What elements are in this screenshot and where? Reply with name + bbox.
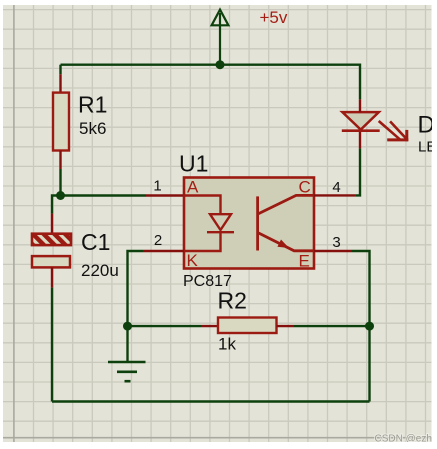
svg-text:+5v: +5v — [260, 8, 288, 27]
node junction R2 left — [123, 322, 132, 331]
wire C1 to bottom rail — [51, 288, 53, 402]
pin R1 bottom — [59, 151, 61, 170]
pin C1 bottom — [51, 267, 53, 287]
diode LED D1 — [342, 112, 380, 131]
pin label E — [299, 251, 310, 270]
pin 2 of U1 — [143, 250, 184, 252]
label D1 — [418, 111, 437, 138]
svg-text:C1: C1 — [81, 229, 110, 255]
internal LED of U1 — [184, 196, 234, 252]
pin 1 of U1 — [146, 194, 184, 196]
internal phototransistor of U1 — [258, 195, 314, 250]
wire R2 right — [294, 325, 370, 327]
svg-text:1: 1 — [153, 178, 161, 195]
wire R2 left — [128, 325, 202, 327]
node junction left — [56, 191, 65, 200]
svg-text:K: K — [187, 251, 199, 270]
svg-text:3: 3 — [332, 234, 340, 251]
label +5v — [260, 8, 288, 27]
power +5v — [212, 10, 229, 65]
svg-text:E: E — [299, 251, 310, 270]
svg-text:220u: 220u — [81, 261, 119, 280]
pin R1 top — [59, 74, 61, 93]
wire top rail — [61, 65, 361, 100]
wire R1 top — [59, 65, 61, 75]
label LED — [418, 138, 437, 155]
resistor R1 — [53, 92, 107, 151]
pin R2 right — [277, 325, 295, 327]
svg-text:4: 4 — [332, 179, 340, 196]
emitter arrowhead — [277, 240, 289, 249]
svg-text:5k6: 5k6 — [79, 119, 106, 138]
pin 4 of U1 — [314, 194, 355, 196]
pin C1 top — [51, 214, 53, 235]
pin label K — [187, 251, 199, 270]
optocoupler U1 — [179, 151, 314, 291]
node junction R2 right — [365, 322, 374, 331]
pin label A — [187, 178, 199, 197]
capacitor C1 — [32, 229, 119, 280]
wire to C1 — [52, 196, 61, 214]
svg-text:U1: U1 — [179, 151, 208, 177]
wire pin3 to junction — [352, 251, 370, 326]
pin number 2 — [154, 232, 162, 249]
watermark — [375, 434, 437, 445]
wire R1 bottom — [59, 169, 61, 196]
wire to ground — [126, 326, 128, 362]
wire pin1 — [61, 194, 147, 196]
pin number 4 — [332, 179, 340, 196]
wire right vertical to bottom — [368, 326, 370, 401]
wire pin4 to LED — [355, 148, 360, 195]
svg-text:A: A — [187, 178, 199, 197]
pin number 1 — [153, 178, 161, 195]
LED emission arrows — [379, 121, 409, 141]
pin LED bottom — [359, 131, 361, 149]
pin R2 left — [201, 325, 218, 327]
node junction at +5v — [216, 60, 225, 69]
wire bottom rail — [52, 400, 370, 402]
svg-text:R1: R1 — [78, 92, 107, 118]
pin LED top — [359, 99, 361, 112]
pin 3 of U1 — [314, 250, 352, 252]
svg-text:C: C — [299, 178, 311, 197]
wire pin2 down — [128, 251, 144, 326]
svg-text:1k: 1k — [218, 335, 236, 354]
resistor R2 — [218, 288, 277, 354]
svg-text:R2: R2 — [218, 288, 247, 314]
ground — [108, 362, 146, 381]
svg-text:2: 2 — [154, 232, 162, 249]
pin label C — [299, 178, 311, 197]
pin number 3 — [332, 234, 340, 251]
